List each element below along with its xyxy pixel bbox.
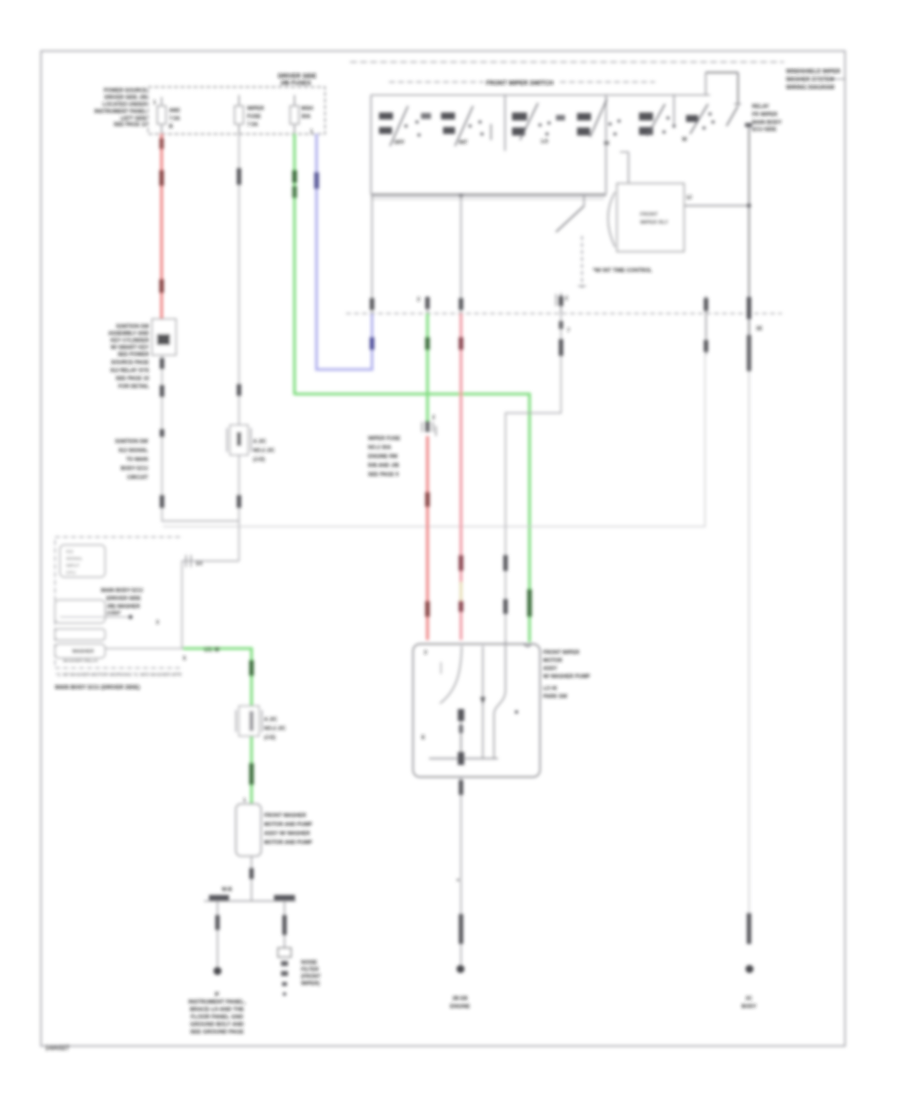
svg-text:NO.2 J/C: NO.2 J/C [264, 726, 286, 732]
svg-text:IG2 SIGNAL: IG2 SIGNAL [119, 448, 149, 454]
fuse F1 AM2 [153, 97, 180, 134]
light harness boundary box [163, 355, 705, 527]
svg-text:2C: 2C [746, 996, 753, 1002]
svg-text:DRIVER SIDE J/B: DRIVER SIDE J/B [104, 95, 147, 101]
svg-text:MOTOR AND PUMP: MOTOR AND PUMP [264, 822, 313, 828]
svg-text:BRACE LH AND THE: BRACE LH AND THE [190, 1007, 245, 1013]
wire washer output [105, 648, 183, 650]
svg-text:HI: HI [604, 141, 610, 147]
svg-text:W: W [682, 137, 687, 143]
svg-text:ASSY: ASSY [543, 666, 558, 672]
svg-text:CPU: CPU [66, 570, 76, 575]
svg-text:NO.2 J/C: NO.2 J/C [253, 448, 275, 454]
svg-text:IF: IF [215, 992, 220, 998]
svg-text:MOTOR AND PUMP: MOTOR AND PUMP [264, 840, 313, 846]
switch S2 [441, 106, 484, 146]
node: main body ECU label [101, 588, 143, 617]
node: WIP-B fuse label mid [368, 436, 401, 478]
svg-text:FOR DETAIL: FOR DETAIL [118, 384, 150, 390]
motor wire jog x505 [494, 640, 506, 759]
wire IG2 fuse feed down [238, 134, 240, 561]
svg-text:WIPER FUSE: WIPER FUSE [368, 436, 401, 442]
svg-text:WIPER): WIPER) [301, 981, 320, 987]
svg-text:7: 7 [567, 328, 570, 334]
svg-text:IGNITION SW: IGNITION SW [116, 324, 149, 330]
ECU internal block 4 washer relay coil [55, 644, 105, 658]
svg-text:2: 2 [565, 296, 568, 302]
wire washer motor ground [251, 856, 253, 901]
svg-text:BODY: BODY [742, 1004, 758, 1010]
wire comb sw pin down x372 [371, 194, 373, 314]
svg-text:W-B: W-B [222, 887, 233, 893]
node: driver side J/B dashed box [148, 87, 325, 134]
svg-text:3: 3 [156, 620, 159, 626]
switch S4 [577, 99, 621, 147]
svg-text:SEE PAGE 9: SEE PAGE 9 [368, 472, 399, 478]
svg-text:WIPER RLY: WIPER RLY [640, 220, 669, 226]
svg-text:1: 1 [310, 129, 313, 135]
svg-text:1: 1 [153, 100, 156, 106]
feed bus from comb switch to relay [371, 195, 606, 197]
svg-text:PARK SW: PARK SW [543, 694, 567, 700]
svg-text:W/ SMART KEY: W/ SMART KEY [111, 345, 150, 351]
svg-text:MAIN BODY: MAIN BODY [752, 120, 782, 126]
svg-text:ASSEMBLY AND: ASSEMBLY AND [108, 331, 149, 337]
svg-text:(DRIVER SIDE: (DRIVER SIDE [106, 596, 141, 602]
svg-text:IG2: IG2 [66, 549, 74, 554]
svg-text:LOCATED UNDER: LOCATED UNDER [102, 102, 147, 108]
svg-text:7.5A: 7.5A [169, 116, 180, 122]
connector green to red transition x427 [422, 415, 436, 436]
svg-text:ASSY W/ WASHER: ASSY W/ WASHER [264, 831, 310, 837]
relay switch mid [583, 196, 585, 206]
svg-text:30A: 30A [301, 114, 311, 120]
switch S3 [512, 103, 565, 145]
svg-text:WIPER: WIPER [247, 106, 264, 112]
main body ECU dashed box [55, 537, 180, 668]
svg-text:MOTOR: MOTOR [543, 658, 562, 664]
svg-text:SIGNAL: SIGNAL [66, 556, 83, 561]
ECU internal block 1 [60, 545, 105, 577]
wire green below bus x427 [426, 314, 429, 422]
svg-text:E4: E4 [196, 561, 202, 567]
svg-text:WSH: WSH [301, 106, 313, 112]
svg-text:CIRCUIT: CIRCUIT [127, 475, 149, 481]
fuse F3 WIP [290, 95, 313, 134]
svg-text:FUSE: FUSE [247, 114, 261, 120]
svg-text:14A027: 14A027 [45, 1045, 70, 1052]
svg-text:NOISE: NOISE [301, 960, 318, 966]
svg-text:B: B [169, 124, 173, 130]
svg-text:FR WIPER: FR WIPER [752, 112, 778, 118]
park switch contact [458, 709, 464, 721]
ground point left [214, 967, 222, 975]
svg-text:MAIN BODY ECU (DRIVER SIDE): MAIN BODY ECU (DRIVER SIDE) [55, 685, 140, 691]
svg-text:IJ1 W: IJ1 W [204, 648, 220, 654]
svg-text:WASHER RELAY: WASHER RELAY [63, 658, 98, 663]
node: ign sw lower label [115, 439, 149, 481]
svg-text:A J/C: A J/C [253, 439, 266, 445]
svg-text:GROUND BOLT AND: GROUND BOLT AND [190, 1022, 244, 1028]
node: washer motor labels [264, 813, 313, 846]
ignition switch box [152, 319, 176, 355]
svg-text:FRONT WIPER SWITCH: FRONT WIPER SWITCH [486, 81, 553, 87]
svg-text:(FRONT: (FRONT [301, 974, 321, 980]
wire from S6 up to wiper relay contact [705, 73, 707, 96]
svg-text:INSTRUMENT PANEL,: INSTRUMENT PANEL, [188, 1000, 246, 1006]
washer motor box [236, 804, 261, 856]
wire left ground branch [217, 901, 219, 970]
front wiper relay switch top right [706, 73, 752, 128]
svg-text:SOURCE PAGE: SOURCE PAGE [111, 360, 149, 366]
wire red AM2 feed [160, 134, 163, 319]
svg-text:WASHER: WASHER [72, 649, 94, 655]
svg-text:J/B) WASHER: J/B) WASHER [106, 604, 140, 610]
node: system title label top right [786, 69, 845, 91]
svg-text:2: 2 [432, 415, 435, 421]
wire blue [317, 134, 373, 370]
node: front wiper relay label [752, 104, 782, 133]
svg-text:7.5A: 7.5A [247, 122, 258, 128]
svg-text:A J/C: A J/C [264, 717, 277, 723]
wire from switch S5 down into relay box [628, 152, 630, 184]
ground tee bar [204, 900, 296, 902]
svg-text:SEE POWER: SEE POWER [118, 352, 150, 358]
wire green horizontal to motor [295, 394, 530, 642]
combination switch box outline [371, 94, 710, 96]
motor internal ground bus [429, 758, 498, 760]
svg-text:J/B FUSES: J/B FUSES [280, 81, 311, 87]
svg-text:FILTER: FILTER [301, 967, 319, 973]
wire motor ground down [460, 777, 462, 970]
green pin bracket [524, 644, 531, 647]
instrument panel boundary dashed bus [346, 313, 782, 315]
svg-text:2: 2 [417, 297, 420, 303]
svg-text:FRONT WIPER: FRONT WIPER [543, 650, 580, 656]
svg-text:DRIVER SIDE: DRIVER SIDE [278, 74, 316, 80]
wire ign output [162, 355, 239, 521]
svg-text:E: E [422, 735, 426, 741]
wire x706 comb sw right pin down [705, 296, 707, 355]
motor armature line with arrow [482, 646, 484, 759]
svg-text:TO MAIN: TO MAIN [126, 457, 148, 463]
svg-text:KEY CYLINDER: KEY CYLINDER [110, 338, 149, 344]
svg-text:*1: W/ WASHER MOTOR WORKING *: *1: W/ WASHER MOTOR WORKING *2: W/O WASH… [56, 672, 182, 677]
svg-text:1J: 1J [686, 195, 692, 201]
wire green WSH fuse [293, 134, 296, 395]
svg-text:FLOOR PANEL GND: FLOOR PANEL GND [191, 1015, 244, 1021]
svg-text:INT: INT [459, 140, 468, 146]
svg-text:IG2 RELAY SYS: IG2 RELAY SYS [110, 368, 149, 374]
svg-text:ENGINE: ENGINE [450, 1004, 470, 1010]
svg-text:SEE GROUND PAGE: SEE GROUND PAGE [190, 1030, 244, 1036]
svg-text:NO.2 30A: NO.2 30A [368, 445, 391, 451]
svg-text:IGNITION SW: IGNITION SW [115, 439, 148, 445]
node: wiper motor labels [543, 650, 591, 700]
dash-dot conditional link [581, 236, 583, 288]
connector on bus x561 [556, 293, 568, 314]
wire jog to ECU connector E4 [182, 561, 239, 649]
svg-text:(J-D): (J-D) [253, 457, 265, 463]
svg-text:2B EB: 2B EB [452, 996, 468, 1002]
switch S5 [639, 104, 687, 143]
wire red to wiper motor x427 [426, 436, 429, 640]
junction connector J/C on IG2 wire [227, 425, 275, 463]
svg-text:1E: 1E [756, 326, 763, 332]
ECU internal block 3 [55, 629, 105, 640]
svg-text:LO HI: LO HI [543, 686, 557, 692]
right ground bottom [747, 913, 751, 944]
wire relay contact down [748, 126, 750, 206]
svg-text:FRONT: FRONT [640, 212, 659, 218]
svg-text:INPUT: INPUT [66, 563, 80, 568]
wire x749 relay output down [748, 206, 750, 372]
node: ignition switch labels [108, 324, 150, 390]
svg-text:SEE PAGE 12: SEE PAGE 12 [114, 122, 147, 128]
svg-text:CONT: CONT [106, 611, 122, 617]
interior divider wires [504, 95, 506, 151]
svg-text:POWER SOURCE: POWER SOURCE [104, 88, 148, 94]
switch S1 [379, 106, 431, 146]
ECU internal block 2 [55, 600, 105, 623]
ground point center [457, 965, 465, 973]
svg-text:MAIN BODY ECU: MAIN BODY ECU [101, 588, 143, 594]
wire right branch to noise filter [284, 901, 286, 950]
svg-text:1: 1 [243, 798, 246, 804]
wire x561 below bus to motor jog [506, 314, 562, 641]
switch S6 [686, 104, 715, 134]
node: power source label left [94, 88, 147, 128]
svg-text:LO: LO [541, 139, 548, 145]
svg-text:FRONT WASHER: FRONT WASHER [264, 813, 306, 819]
svg-text:RELAY: RELAY [752, 104, 770, 110]
svg-text:SEE PAGE 10: SEE PAGE 10 [116, 376, 149, 382]
motor park switch arm curve [440, 646, 462, 704]
wire: top harness dashed line [350, 61, 784, 63]
svg-text:*W/ INT TIME CONTROL: *W/ INT TIME CONTROL [593, 268, 653, 274]
svg-text:ECU SIDE: ECU SIDE [752, 127, 777, 133]
junction connector on washer wire [236, 706, 286, 741]
svg-text:R/B AND J/B: R/B AND J/B [368, 463, 399, 469]
svg-text:WINDSHIELD WIPER: WINDSHIELD WIPER [786, 69, 840, 75]
svg-text:WASHER SYSTEM: WASHER SYSTEM [786, 77, 835, 83]
svg-text:INSTRUMENT PANEL: INSTRUMENT PANEL [94, 109, 147, 115]
svg-text:W/ WASHER PUMP: W/ WASHER PUMP [543, 674, 591, 680]
wire comb sw pin down x461 [460, 194, 462, 314]
wire green washer [183, 649, 252, 805]
svg-text:ENGINE RM: ENGINE RM [368, 454, 397, 460]
fuse F2 IG2 [235, 95, 265, 134]
wire red below bus x461 [460, 314, 463, 641]
front wiper motor box [413, 644, 540, 777]
svg-text:(J-E): (J-E) [264, 735, 276, 741]
svg-text:WIRING DIAGRAM: WIRING DIAGRAM [786, 85, 835, 91]
svg-text:BODY ECU: BODY ECU [121, 466, 149, 472]
connector on red wire [159, 138, 164, 149]
noise filter element [278, 948, 291, 957]
svg-text:2: 2 [424, 650, 427, 656]
svg-text:AM2: AM2 [169, 108, 180, 114]
node: combination switch dashed boundary with label [389, 81, 484, 83]
svg-text:5: 5 [183, 656, 186, 662]
svg-text:OFF: OFF [394, 140, 404, 146]
relay coil box [617, 184, 684, 252]
